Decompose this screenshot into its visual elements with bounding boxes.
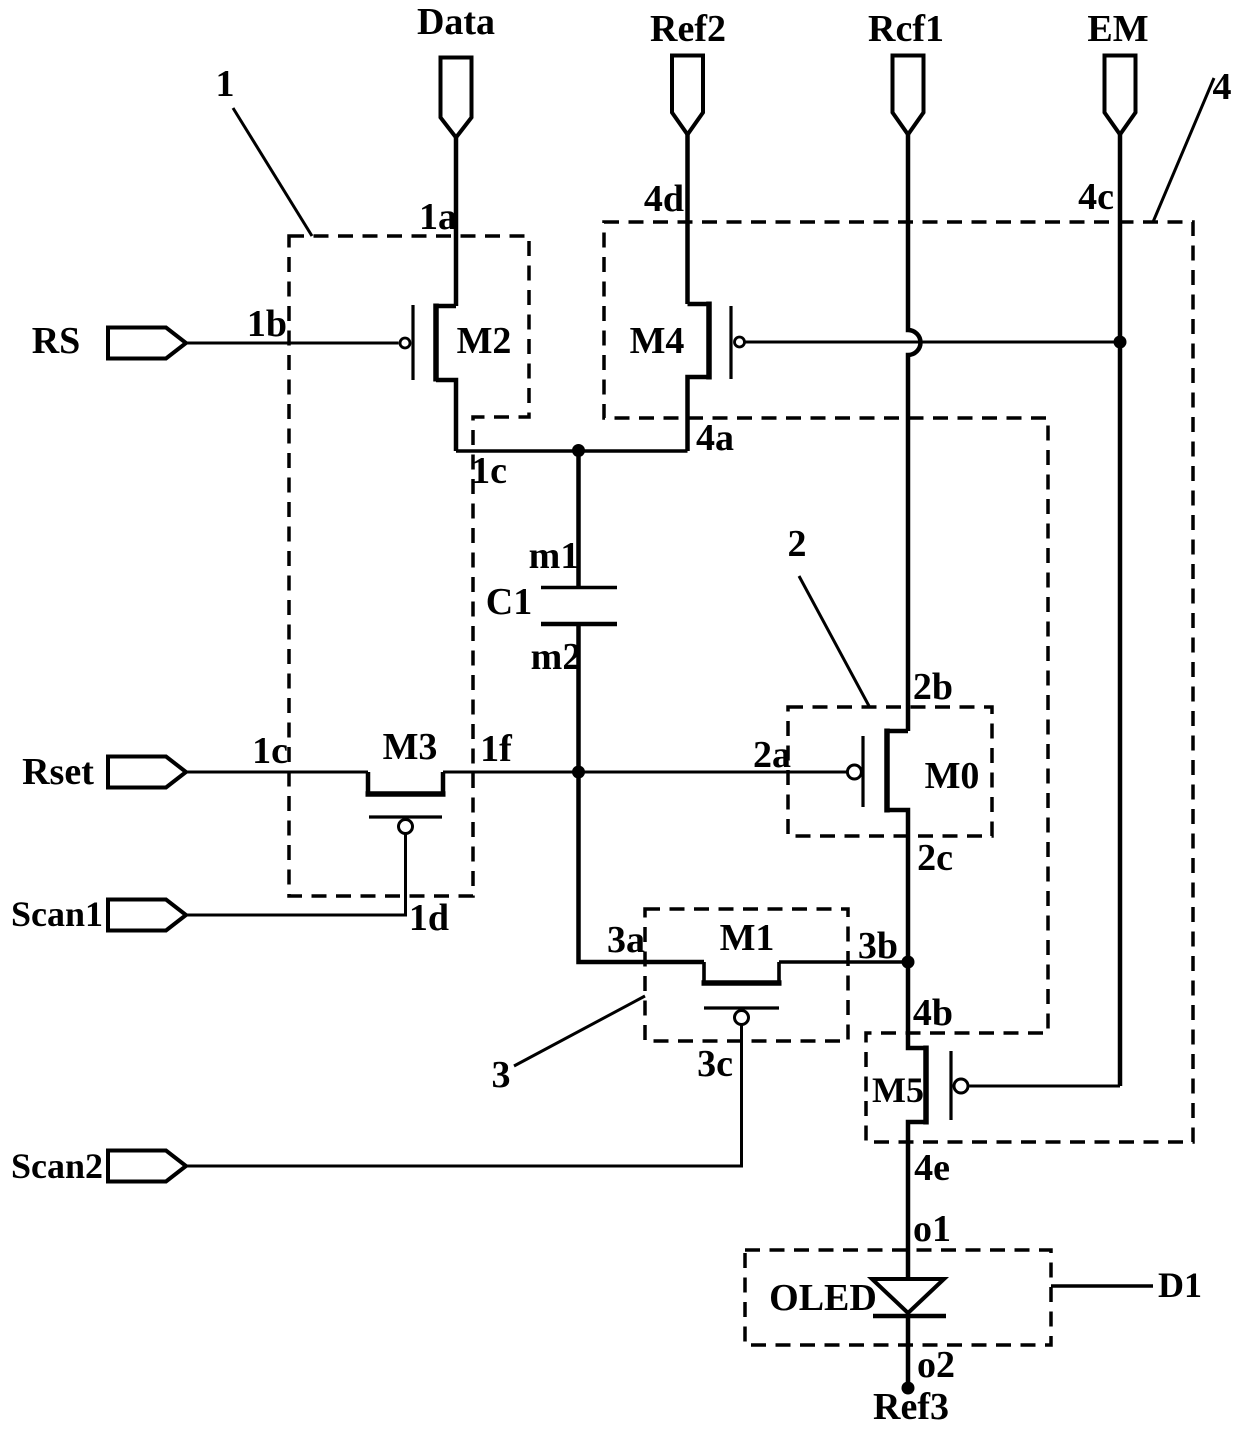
label 1a xyxy=(419,196,457,238)
label M5 xyxy=(872,1070,924,1110)
label OLED xyxy=(769,1277,877,1319)
transistor M0 xyxy=(847,729,908,963)
capacitor C1 xyxy=(541,451,617,772)
wire node 1f down to M1 xyxy=(579,772,705,962)
svg-text:Ref3: Ref3 xyxy=(873,1386,949,1428)
wire Rcf1 down with hop over M4 gate wire xyxy=(908,133,921,731)
svg-text:1: 1 xyxy=(216,63,235,105)
svg-text:C1: C1 xyxy=(486,581,532,623)
svg-text:4d: 4d xyxy=(644,178,684,220)
svg-text:D1: D1 xyxy=(1158,1265,1202,1305)
svg-text:4e: 4e xyxy=(914,1147,950,1189)
label 1f xyxy=(480,728,513,770)
wire EM down to M5 gate xyxy=(1118,133,1123,1086)
label M4 xyxy=(630,320,685,362)
svg-text:4: 4 xyxy=(1213,66,1232,108)
wire Rset to M3 xyxy=(186,771,368,774)
dashed box 2 xyxy=(788,707,992,836)
label 4d xyxy=(644,178,684,220)
label m1 xyxy=(529,535,580,577)
svg-text:1a: 1a xyxy=(419,196,457,238)
label 1c second xyxy=(252,730,288,772)
svg-text:Rcf1: Rcf1 xyxy=(868,8,944,50)
svg-text:M4: M4 xyxy=(630,320,685,362)
label 1 xyxy=(216,63,235,105)
wire Scan1 to M3 gate xyxy=(186,914,407,917)
label 1b xyxy=(247,303,287,345)
pointer line 2 xyxy=(799,576,869,706)
label 4a xyxy=(696,417,734,459)
svg-text:1d: 1d xyxy=(409,897,449,939)
terminal Rcf1 xyxy=(893,56,924,135)
transistor M2 xyxy=(400,304,456,452)
svg-text:RS: RS xyxy=(32,320,81,362)
label o1 xyxy=(913,1208,951,1250)
svg-text:M0: M0 xyxy=(925,755,980,797)
label 2c xyxy=(917,837,953,879)
dashed box 3 xyxy=(645,909,848,1041)
junction dot EM gate node xyxy=(1114,336,1127,349)
svg-text:Data: Data xyxy=(417,1,495,43)
dashed box OLED xyxy=(745,1250,1051,1345)
svg-text:M3: M3 xyxy=(383,726,438,768)
terminal EM xyxy=(1105,56,1136,135)
svg-text:3: 3 xyxy=(492,1054,511,1096)
pointer line 4 xyxy=(1153,78,1214,222)
transistor M1 xyxy=(702,962,909,1166)
label M0 xyxy=(925,755,980,797)
svg-text:2c: 2c xyxy=(917,837,953,879)
label m2 xyxy=(531,636,582,678)
transistor M3 xyxy=(366,772,446,915)
terminal Rset xyxy=(108,757,186,788)
wire RS to M2 gate xyxy=(186,342,399,345)
svg-text:M1: M1 xyxy=(720,917,775,959)
label D1 xyxy=(1158,1265,1202,1305)
junction dot node o2 xyxy=(902,1382,915,1395)
svg-text:3b: 3b xyxy=(858,925,898,967)
svg-text:o2: o2 xyxy=(917,1344,955,1386)
label Rset xyxy=(22,751,94,793)
terminal Ref2 xyxy=(672,56,703,135)
label o2 xyxy=(917,1344,955,1386)
label 4e xyxy=(914,1147,950,1189)
svg-text:m2: m2 xyxy=(531,636,582,678)
label 2 xyxy=(788,523,807,565)
svg-text:Scan2: Scan2 xyxy=(11,1146,103,1186)
wire node 1c-4a xyxy=(456,449,688,453)
label 2b xyxy=(913,666,953,708)
svg-text:4c: 4c xyxy=(1078,176,1114,218)
label EM xyxy=(1087,8,1148,50)
label Ref3 xyxy=(873,1386,949,1428)
label 3c xyxy=(697,1043,733,1085)
label Scan1 xyxy=(11,894,103,934)
pointer line 1 xyxy=(233,108,312,236)
svg-text:2: 2 xyxy=(788,523,807,565)
junction dot node 1f xyxy=(572,766,585,779)
svg-text:M5: M5 xyxy=(872,1070,924,1110)
terminal Scan1 xyxy=(108,900,186,931)
junction dot node 1c xyxy=(572,444,585,457)
label 3 xyxy=(492,1054,511,1096)
label 3b xyxy=(858,925,898,967)
svg-text:EM: EM xyxy=(1087,8,1148,50)
junction dot node 3b xyxy=(902,956,915,969)
svg-text:4a: 4a xyxy=(696,417,734,459)
label 4b xyxy=(913,992,953,1034)
wire M4 gate to EM xyxy=(746,341,1121,344)
wire M5 gate to EM xyxy=(970,1085,1121,1088)
label M2 xyxy=(457,320,512,362)
label 4c xyxy=(1078,176,1114,218)
svg-text:2a: 2a xyxy=(753,734,791,776)
label Data xyxy=(417,1,495,43)
wire Data to M2 drain xyxy=(454,136,459,306)
svg-text:1f: 1f xyxy=(480,728,513,770)
svg-text:OLED: OLED xyxy=(769,1277,877,1319)
label M1 xyxy=(720,917,775,959)
svg-text:Ref2: Ref2 xyxy=(650,8,726,50)
svg-text:3c: 3c xyxy=(697,1043,733,1085)
terminal RS xyxy=(108,328,186,359)
label 1c xyxy=(471,450,507,492)
dashed box 1 xyxy=(289,236,529,896)
diode OLED xyxy=(872,1279,946,1388)
terminal Scan2 xyxy=(108,1151,186,1182)
svg-text:M2: M2 xyxy=(457,320,512,362)
label 1d xyxy=(409,897,449,939)
label C1 xyxy=(486,581,532,623)
wire Scan2 to M1 gate xyxy=(186,1165,743,1168)
label Scan2 xyxy=(11,1146,103,1186)
svg-text:4b: 4b xyxy=(913,992,953,1034)
transistor M5 xyxy=(908,962,968,1279)
dashed box 4 xyxy=(604,222,1193,1142)
label Ref2 xyxy=(650,8,726,50)
wire Ref2 to M4 source xyxy=(685,133,690,304)
svg-text:2b: 2b xyxy=(913,666,953,708)
terminal Data xyxy=(441,58,472,138)
pointer line 3 xyxy=(514,996,645,1066)
svg-text:3a: 3a xyxy=(607,919,645,961)
label RS xyxy=(32,320,81,362)
svg-text:1c: 1c xyxy=(471,450,507,492)
wire M3 to node 1f to M0 gate xyxy=(443,771,846,774)
svg-text:m1: m1 xyxy=(529,535,580,577)
svg-text:Rset: Rset xyxy=(22,751,94,793)
svg-text:Scan1: Scan1 xyxy=(11,894,103,934)
label 2a xyxy=(753,734,791,776)
wire D1 xyxy=(1051,1284,1153,1288)
label 4 xyxy=(1213,66,1232,108)
svg-text:o1: o1 xyxy=(913,1208,951,1250)
svg-text:1b: 1b xyxy=(247,303,287,345)
label Rcf1 xyxy=(868,8,944,50)
label 3a xyxy=(607,919,645,961)
label M3 xyxy=(383,726,438,768)
svg-text:1c: 1c xyxy=(252,730,288,772)
transistor M4 xyxy=(688,302,745,452)
